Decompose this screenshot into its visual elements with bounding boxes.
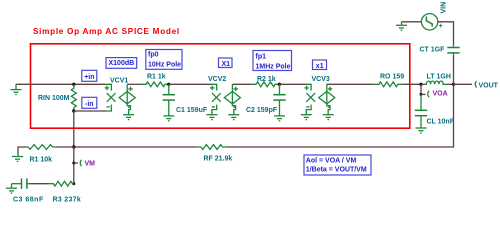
ground (R1 10k) stem	[17, 154, 19, 157]
wire: VCV1 out to R1	[127, 83, 141, 85]
svg-text:R1 1k: R1 1k	[147, 74, 166, 81]
wire: VCV3 out to RO	[327, 83, 373, 85]
svg-text:fp0: fp0	[148, 52, 159, 59]
op-amp stage VCV1 controlling port (X)	[105, 84, 116, 111]
svg-text:R1 10k: R1 10k	[30, 157, 53, 164]
callout box -in	[82, 97, 97, 108]
resistor R2 1k	[251, 82, 280, 87]
ground (VCV3 X port)	[301, 115, 312, 120]
svg-text:VCV1: VCV1	[110, 78, 128, 85]
node: R1/C1 junction dot	[167, 83, 170, 86]
node tap VOUT	[475, 81, 476, 87]
svg-text:RF 21.9k: RF 21.9k	[204, 155, 233, 162]
ground (C3)	[6, 188, 17, 193]
wire: -in rail down to feedback node	[73, 111, 75, 147]
resistor RO 159	[373, 82, 404, 87]
wire: node fp0 to VCV2 + terminal	[169, 83, 211, 85]
svg-text:fp1: fp1	[256, 54, 267, 61]
svg-text:-in: -in	[85, 101, 94, 108]
VCVS VCV3 output diamond	[319, 84, 335, 114]
svg-text:+in: +in	[84, 74, 94, 81]
ground (CL)	[416, 128, 427, 133]
resistor R1 10k (bottom left)	[56, 146, 74, 148]
ground (VIN)	[396, 25, 407, 30]
wire: node fp1 to VCV3 + terminal	[280, 83, 306, 85]
wire: VOUT tap	[454, 83, 473, 85]
ground (VCV3 diamond)	[323, 115, 334, 120]
wire: -in rail to VCV1 - terminal	[74, 110, 107, 112]
ground (VCV1 diamond)	[123, 115, 134, 120]
node: +in junction dot	[72, 83, 75, 86]
ground (VIN) stem	[401, 22, 403, 25]
svg-text:R3 237k: R3 237k	[53, 197, 82, 204]
op-amp stage VCV2 controlling port (X)	[210, 84, 221, 114]
callout box X100dB	[106, 58, 137, 69]
node: R2/C2 junction dot	[278, 83, 281, 86]
op-amp stage VCV3 controlling port (X)	[304, 84, 315, 114]
node: VOUT junction dot	[452, 83, 455, 86]
svg-text:VOA: VOA	[433, 91, 448, 98]
callout box fp0 / 10Hz Pole	[146, 50, 182, 70]
annotation box Aol / 1/Beta	[304, 155, 371, 175]
callout box fp1 / 1MHz Pole	[253, 51, 292, 71]
svg-text:RIN 100M: RIN 100M	[38, 95, 70, 102]
resistor R3 237k	[49, 181, 74, 186]
callout box X1	[219, 58, 233, 68]
ground (input stem bars)	[11, 90, 22, 95]
svg-text:CL 10nF: CL 10nF	[427, 118, 455, 125]
svg-text:C3 68nF: C3 68nF	[13, 197, 44, 204]
resistor RIN 100M (vertical)	[71, 84, 76, 111]
node tap VM	[80, 160, 81, 166]
wire: VM branch down	[73, 147, 75, 184]
capacitor CT 1GF	[447, 44, 459, 57]
node: R3 junction dot	[72, 182, 75, 185]
node: VOA junction dot	[419, 83, 422, 86]
inductor LT 1GH	[421, 83, 425, 85]
node: VM tap dot	[72, 162, 75, 165]
wire: VCV2 out to R2	[232, 83, 251, 85]
wire: VOA tap	[420, 84, 422, 94]
svg-text:C1 159uF: C1 159uF	[176, 107, 208, 114]
wire: feedback from VOUT down and across	[227, 84, 454, 147]
resistor RF 21.9k	[197, 145, 227, 150]
svg-text:Simple Op Amp AC SPICE Model: Simple Op Amp AC SPICE Model	[33, 27, 180, 36]
svg-text:RO 159: RO 159	[380, 74, 404, 81]
callout box +in	[82, 70, 97, 81]
svg-text:VCV3: VCV3	[312, 76, 330, 83]
svg-text:CT 1GF: CT 1GF	[420, 47, 446, 54]
wire: VIN right then down to CT	[438, 22, 454, 44]
capacitor C3 68nF (horizontal)	[12, 178, 31, 188]
svg-text:X1: X1	[222, 61, 231, 68]
svg-text:VCV2: VCV2	[208, 76, 226, 83]
capacitor CL 10nF	[415, 94, 427, 127]
voltage source VIN	[421, 14, 437, 30]
svg-text:1MHz Pole: 1MHz Pole	[256, 64, 291, 71]
ground (R1 10k)	[12, 157, 23, 162]
svg-text:LT 1GH: LT 1GH	[427, 74, 451, 81]
capacitor C1 159uF	[163, 84, 175, 116]
wire: RF to -in node	[74, 146, 197, 148]
svg-text:C2 159pF: C2 159pF	[246, 107, 278, 114]
svg-text:Aol = VOA / VM: Aol = VOA / VM	[306, 158, 357, 165]
ground (input)	[15, 84, 17, 89]
VCVS VCV1 output diamond	[119, 84, 135, 114]
svg-text:VOUT: VOUT	[479, 82, 499, 89]
wire: input rail from ground to VCV1 + terminal	[16, 83, 106, 85]
node: feedback junction dot	[72, 145, 75, 148]
op-amp model boundary box (red)	[31, 44, 410, 128]
node: -in junction dot	[72, 109, 75, 112]
callout box x1	[313, 60, 327, 70]
svg-text:VM: VM	[85, 161, 96, 168]
svg-text:X100dB: X100dB	[109, 60, 135, 67]
svg-text:VIN: VIN	[441, 2, 448, 14]
wire: RO to node VOA	[404, 83, 421, 85]
ground (C2)	[274, 116, 285, 121]
wire: VIN left to ground	[402, 21, 422, 23]
wire: CT to VOUT node	[453, 56, 455, 84]
resistor R1 1k	[141, 82, 169, 87]
wire: R3 to C3	[31, 183, 49, 185]
ground (VCV2 diamond)	[228, 115, 239, 120]
svg-text:10Hz Pole: 10Hz Pole	[148, 61, 181, 68]
svg-text:1/Beta = VOUT/VM: 1/Beta = VOUT/VM	[306, 167, 367, 174]
svg-text:R2 1k: R2 1k	[257, 76, 276, 83]
VCVS VCV2 output diamond	[224, 84, 240, 114]
capacitor C2 159pF	[273, 84, 285, 116]
ground (VCV2 X port)	[206, 115, 217, 120]
svg-text:x1: x1	[316, 63, 324, 70]
ground (C1)	[163, 116, 174, 121]
node tap VOA	[428, 91, 429, 97]
